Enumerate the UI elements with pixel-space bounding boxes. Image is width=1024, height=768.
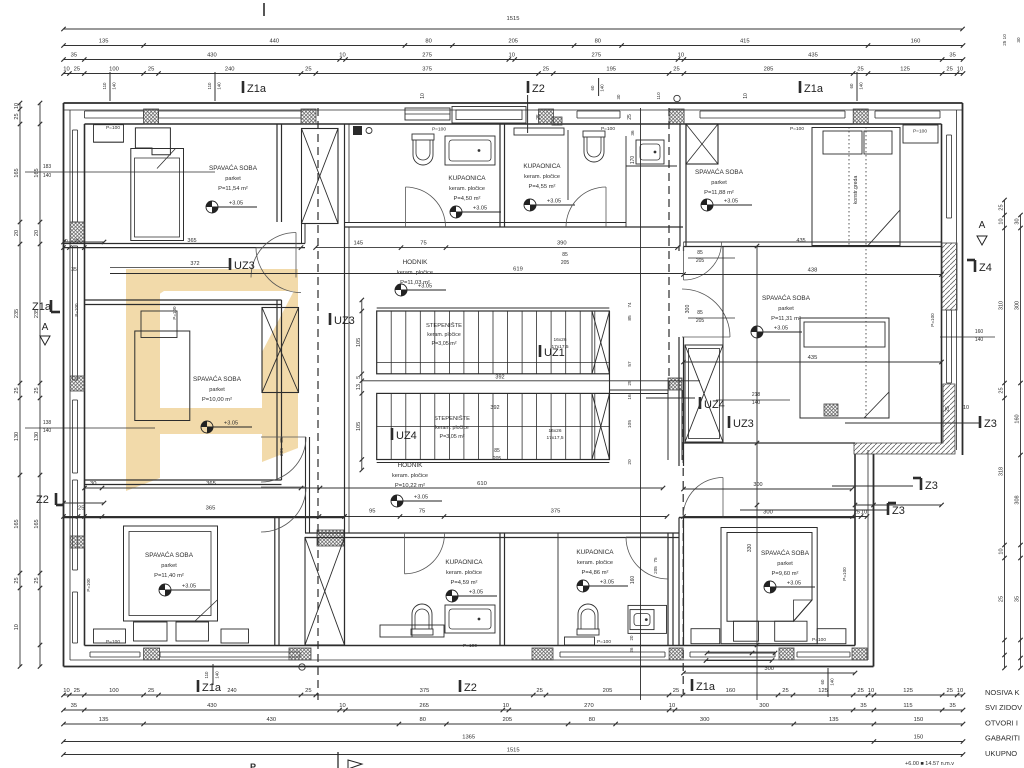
svg-text:25: 25	[34, 387, 40, 393]
svg-text:619: 619	[513, 267, 523, 273]
svg-text:P=4,55 m²: P=4,55 m²	[529, 184, 556, 190]
dashed section line right lower	[682, 390, 684, 694]
stair mid dimension line	[362, 380, 700, 382]
svg-text:430: 430	[266, 717, 276, 723]
svg-text:80: 80	[589, 717, 595, 723]
svg-text:300: 300	[700, 717, 710, 723]
svg-text:110: 110	[656, 92, 661, 100]
svg-text:P=100: P=100	[463, 643, 477, 649]
svg-text:25: 25	[74, 688, 80, 694]
svg-text:165: 165	[14, 168, 20, 177]
door bath3	[405, 534, 445, 574]
bath4 walls	[557, 533, 559, 645]
shaft2	[262, 308, 299, 393]
svg-text:keram. pločice: keram. pločice	[446, 570, 482, 576]
svg-text:25: 25	[148, 688, 154, 694]
dim row total 1515	[64, 28, 963, 30]
pier left 2	[70, 376, 85, 391]
svg-text:UZ4: UZ4	[396, 430, 417, 442]
svg-text:300: 300	[753, 482, 762, 488]
svg-text:25: 25	[857, 67, 863, 73]
svg-text:57: 57	[627, 361, 633, 367]
wall top-right bedroom bottom y246	[684, 246, 942, 248]
svg-text:435: 435	[808, 53, 818, 59]
svg-text:392: 392	[495, 375, 504, 381]
vertical dim x640	[640, 108, 642, 700]
bed bedroom3 right-mid	[800, 318, 889, 418]
svg-text:430: 430	[207, 703, 217, 709]
svg-text:75: 75	[653, 557, 658, 563]
svg-text:20: 20	[627, 459, 633, 465]
svg-text:SPAVAĆA SOBA: SPAVAĆA SOBA	[695, 167, 744, 176]
bath2 walls	[567, 130, 569, 200]
svg-text:10: 10	[669, 703, 675, 709]
svg-text:25: 25	[782, 688, 788, 694]
svg-text:P: P	[250, 762, 256, 768]
svg-text:25: 25	[74, 238, 80, 244]
bath2 shelf	[514, 128, 564, 135]
svg-text:10: 10	[339, 53, 345, 59]
bedroom1 bottom wall y247.6	[64, 243, 306, 245]
shaft3	[305, 538, 345, 646]
window bottom 100b	[797, 651, 850, 653]
svg-text:25: 25	[78, 506, 84, 512]
svg-text:125: 125	[900, 67, 910, 73]
top center axis tick	[263, 3, 265, 16]
bath4 small box	[565, 637, 595, 645]
section marker Z1a bottom-left	[197, 680, 200, 692]
tick left	[64, 241, 105, 243]
bedroom4 level marker +3.05	[201, 421, 213, 433]
svg-text:375: 375	[420, 688, 430, 694]
bottom dim row A	[64, 694, 964, 696]
svg-text:parket: parket	[225, 176, 241, 182]
window dim pair bottom x213	[212, 664, 214, 685]
svg-text:parket: parket	[711, 180, 727, 186]
svg-text:Z1a: Z1a	[804, 83, 824, 95]
svg-text:16: 16	[627, 394, 633, 400]
svg-text:205: 205	[653, 566, 658, 574]
svg-text:140: 140	[975, 337, 984, 343]
tick row	[64, 502, 105, 504]
svg-text:+3.05: +3.05	[229, 201, 243, 207]
dotted beam lines top-right	[848, 127, 850, 245]
svg-text:10: 10	[420, 93, 426, 99]
svg-text:10: 10	[63, 67, 69, 73]
svg-text:P=100: P=100	[106, 639, 120, 645]
svg-text:30: 30	[1016, 37, 1021, 43]
svg-text:+3.05: +3.05	[600, 580, 614, 586]
svg-text:keram. pločice: keram. pločice	[392, 473, 428, 479]
svg-text:Z1a: Z1a	[202, 682, 222, 694]
window	[946, 135, 948, 218]
svg-text:P=3,05 m²: P=3,05 m²	[439, 434, 464, 440]
bedroom5 right wall	[274, 518, 276, 646]
svg-text:140: 140	[752, 400, 761, 406]
svg-text:parket: parket	[778, 306, 794, 312]
svg-text:35: 35	[1015, 596, 1021, 602]
bath3 level marker +3.05	[446, 590, 458, 602]
svg-text:keram. pločice: keram. pločice	[427, 332, 461, 338]
svg-text:85: 85	[562, 252, 568, 258]
svg-text:keram. pločice: keram. pločice	[524, 174, 560, 180]
wall bottom rooms top y517.5	[64, 517, 345, 519]
svg-text:95: 95	[369, 509, 375, 515]
bottom center axis tick	[337, 752, 339, 768]
door bedroom2 upper	[684, 242, 722, 280]
svg-text:150: 150	[914, 717, 924, 723]
svg-text:25: 25	[673, 67, 679, 73]
dim row y488 right	[301, 487, 663, 489]
dim row 2	[64, 45, 964, 47]
svg-text:Z3: Z3	[925, 480, 938, 492]
svg-text:25: 25	[999, 387, 1005, 393]
section marker UZ3 b	[329, 313, 332, 325]
svg-text:310: 310	[999, 301, 1005, 310]
svg-text:300: 300	[1015, 301, 1021, 310]
svg-text:415: 415	[740, 39, 750, 45]
stair hall left wall	[344, 227, 346, 533]
svg-text:25: 25	[946, 688, 952, 694]
svg-text:25: 25	[305, 67, 311, 73]
svg-text:STEPENIŠTE: STEPENIŠTE	[434, 415, 470, 422]
bed bedroom6 bottom-right	[721, 528, 817, 644]
section marker Z2 left	[55, 493, 58, 505]
sink niche box bath4	[628, 605, 667, 633]
svg-text:300: 300	[759, 703, 769, 709]
svg-text:UKUPNO: UKUPNO	[985, 749, 1017, 758]
section marker UZ4 left	[391, 428, 394, 440]
Z3 leader line 2	[740, 509, 888, 511]
Z2 section trace line	[527, 95, 529, 133]
svg-text:parket: parket	[209, 387, 225, 393]
window bottom	[560, 651, 665, 653]
svg-text:P=100: P=100	[597, 639, 611, 645]
svg-text:365: 365	[187, 238, 196, 244]
bath1 level marker +3.05	[450, 206, 462, 218]
svg-text:P=11,31 m²: P=11,31 m²	[771, 316, 801, 322]
svg-text:365: 365	[206, 506, 216, 512]
svg-text:NOSIVA K: NOSIVA K	[985, 688, 1019, 697]
svg-text:130: 130	[34, 432, 40, 441]
svg-text:240: 240	[227, 688, 236, 694]
svg-text:UZ4: UZ4	[704, 399, 725, 411]
svg-text:10: 10	[339, 703, 345, 709]
svg-text:35: 35	[71, 267, 77, 273]
window top bath1 large	[452, 107, 526, 124]
svg-text:318: 318	[999, 467, 1005, 476]
svg-text:25: 25	[999, 596, 1005, 602]
svg-text:UZ3: UZ3	[733, 418, 754, 430]
svg-text:170: 170	[630, 156, 636, 165]
door bath4	[626, 537, 668, 579]
svg-text:205: 205	[696, 318, 705, 324]
bottom dim row B	[64, 709, 964, 711]
bottom dim row E	[64, 754, 964, 756]
svg-text:KUPAONICA: KUPAONICA	[448, 175, 486, 182]
svg-text:165: 165	[34, 519, 40, 528]
svg-text:+3.05: +3.05	[547, 199, 561, 205]
svg-text:165: 165	[34, 168, 40, 177]
svg-text:270: 270	[584, 703, 594, 709]
svg-text:+3.05: +3.05	[414, 495, 428, 501]
window top bath1 small	[405, 108, 450, 120]
svg-text:36: 36	[630, 130, 635, 136]
sink bath3	[445, 605, 495, 633]
door bath1	[406, 187, 446, 227]
svg-text:275: 275	[422, 53, 432, 59]
svg-text:UZ3: UZ3	[234, 260, 255, 272]
pier bottom 4	[669, 648, 683, 660]
door bath2	[566, 187, 606, 227]
outer wall top	[64, 102, 963, 104]
svg-text:25: 25	[536, 688, 542, 694]
svg-text:parket: parket	[161, 563, 177, 569]
corridor wall pieces near UZ4	[610, 389, 669, 391]
svg-text:80: 80	[419, 717, 425, 723]
svg-text:P=11,88 m²: P=11,88 m²	[704, 190, 734, 196]
window left 235	[72, 246, 74, 380]
svg-text:285: 285	[764, 67, 774, 73]
svg-text:10: 10	[957, 688, 963, 694]
svg-text:P=100: P=100	[86, 578, 91, 592]
bath3 walls	[344, 533, 346, 645]
svg-text:10: 10	[14, 624, 20, 630]
wardrobe bedroom2 (X-box)	[686, 124, 718, 164]
svg-text:140: 140	[830, 678, 835, 686]
svg-text:300: 300	[764, 666, 774, 672]
door bedroom6	[683, 478, 723, 518]
svg-text:25: 25	[14, 387, 20, 393]
hatch bottom small	[824, 404, 838, 416]
dim row 3	[64, 59, 964, 61]
svg-text:Z1a: Z1a	[247, 83, 267, 95]
section marker Z3 mid	[920, 478, 923, 490]
pier bottom 5	[779, 648, 794, 660]
svg-text:Z1a: Z1a	[32, 301, 52, 313]
mini corridor wall x305	[305, 437, 307, 533]
vertical dim x757	[756, 246, 758, 700]
svg-text:75: 75	[419, 509, 425, 515]
Z3 leader line 3	[845, 422, 980, 424]
section cut hatch right L-shape Z3	[854, 384, 955, 454]
svg-text:10: 10	[503, 703, 509, 709]
window top right 125	[875, 110, 940, 112]
svg-text:P=10,00 m²: P=10,00 m²	[202, 397, 232, 403]
pier bottom 2	[289, 648, 311, 660]
window left 165b	[72, 480, 74, 570]
svg-text:140: 140	[43, 173, 52, 179]
svg-text:165: 165	[14, 519, 20, 528]
svg-text:160: 160	[911, 39, 921, 45]
window dim pair x598	[598, 78, 600, 96]
stair walk line lower	[377, 426, 610, 428]
svg-text:keram. pločice: keram. pločice	[435, 425, 469, 431]
svg-text:SPAVAĆA SOBA: SPAVAĆA SOBA	[761, 548, 810, 557]
svg-text:1515: 1515	[507, 748, 520, 754]
svg-text:85: 85	[494, 448, 500, 454]
dashed section line left	[317, 108, 319, 700]
svg-text:25: 25	[148, 67, 154, 73]
svg-text:KUPAONICA: KUPAONICA	[445, 559, 483, 566]
pier center corridor	[668, 378, 682, 390]
svg-text:Z2: Z2	[464, 682, 477, 694]
svg-text:25: 25	[536, 114, 542, 120]
svg-text:25: 25	[34, 577, 40, 583]
interior dim row y247	[316, 247, 678, 249]
svg-text:P=100: P=100	[432, 127, 446, 133]
door bedroom5	[261, 487, 306, 532]
svg-text:183: 183	[43, 164, 52, 170]
svg-text:10: 10	[999, 218, 1005, 224]
window right 160	[946, 310, 948, 383]
bedroom1 level marker +3.05	[206, 201, 218, 213]
svg-text:keram. pločice: keram. pločice	[577, 560, 613, 566]
svg-text:keram. pločice: keram. pločice	[397, 270, 433, 276]
svg-text:308: 308	[1015, 495, 1021, 504]
svg-text:218: 218	[752, 392, 761, 398]
svg-text:10: 10	[743, 93, 749, 99]
svg-text:30: 30	[90, 481, 96, 487]
section marker Z3 right top	[979, 416, 982, 428]
toilet bath3	[411, 604, 433, 635]
svg-text:160: 160	[630, 576, 636, 585]
svg-text:85: 85	[697, 310, 703, 316]
outer wall right lower (inset)	[873, 454, 875, 667]
landing right wall	[609, 311, 611, 460]
section marker UZ1	[539, 345, 542, 357]
outer wall bottom	[64, 666, 874, 668]
section marker Z2 top	[527, 81, 530, 93]
window top 240	[159, 110, 302, 112]
bed bedroom2 top-right	[812, 128, 900, 246]
svg-text:SPAVAĆA SOBA: SPAVAĆA SOBA	[145, 550, 194, 559]
bed bedroom4 left-mid	[135, 331, 190, 421]
svg-text:150: 150	[914, 735, 924, 741]
svg-text:25: 25	[14, 113, 20, 119]
pier top 1	[144, 109, 159, 124]
svg-text:138: 138	[43, 420, 52, 426]
hodnik lower level marker +3.05	[391, 495, 403, 507]
UZ4 leader	[646, 397, 695, 399]
dim row y488 left	[85, 487, 321, 489]
window dim pair x215	[214, 72, 216, 101]
svg-text:10: 10	[868, 688, 874, 694]
corridor right dim 300 row	[684, 488, 853, 490]
svg-text:125: 125	[903, 688, 913, 694]
svg-text:25: 25	[999, 204, 1005, 210]
section marker Z2 bottom	[459, 680, 462, 692]
svg-text:10: 10	[508, 53, 514, 59]
svg-text:25: 25	[857, 688, 863, 694]
svg-text:KUPAONICA: KUPAONICA	[576, 549, 614, 556]
svg-text:10: 10	[63, 688, 69, 694]
svg-text:85: 85	[697, 250, 703, 256]
svg-text:UZ3: UZ3	[334, 315, 355, 327]
svg-text:STEPENIŠTE: STEPENIŠTE	[426, 322, 462, 329]
svg-text:UZ1: UZ1	[544, 347, 565, 359]
lower corridor walls y533	[305, 532, 679, 534]
window bottom 100	[90, 651, 140, 653]
svg-text:115: 115	[903, 703, 912, 709]
window left 165	[72, 130, 74, 222]
svg-text:A: A	[42, 322, 49, 333]
svg-text:440: 440	[269, 39, 279, 45]
toilet bath4	[577, 604, 599, 635]
svg-text:+3.05: +3.05	[724, 199, 738, 205]
svg-text:140: 140	[217, 82, 222, 90]
svg-text:+6.00 ■ 14.57 n.m.v: +6.00 ■ 14.57 n.m.v	[905, 761, 954, 767]
svg-text:10: 10	[678, 53, 684, 59]
svg-text:110: 110	[102, 82, 107, 90]
dim row y516 left	[64, 516, 345, 518]
svg-text:265: 265	[419, 703, 429, 709]
window left low	[72, 592, 74, 643]
section cut hatch right wall Z4	[942, 243, 957, 310]
shaft X-box right of stairs	[685, 345, 723, 442]
dim 435 a	[684, 361, 942, 363]
window top right 285	[700, 110, 845, 112]
svg-text:438: 438	[808, 268, 818, 274]
svg-text:205: 205	[508, 39, 518, 45]
svg-text:25: 25	[543, 67, 549, 73]
svg-text:10: 10	[14, 103, 20, 109]
svg-text:160: 160	[1015, 414, 1021, 423]
sink bath2	[636, 140, 664, 164]
stair walk line upper	[377, 362, 610, 364]
pier bottom 3	[532, 648, 553, 660]
svg-text:+3.05: +3.05	[787, 581, 801, 587]
svg-text:145: 145	[353, 241, 363, 247]
svg-text:300: 300	[685, 305, 691, 314]
svg-text:17x17,5: 17x17,5	[546, 435, 563, 441]
hodnik upper level marker +3.05	[395, 284, 407, 296]
right dim col outer	[1020, 215, 1022, 668]
svg-text:parket: parket	[777, 561, 793, 567]
svg-text:P=9,60 m²: P=9,60 m²	[772, 571, 799, 577]
svg-text:205: 205	[502, 717, 512, 723]
shaft1 to wall connector	[301, 224, 303, 244]
svg-text:105: 105	[627, 420, 633, 428]
svg-text:25: 25	[74, 67, 80, 73]
svg-text:P=11,40 m²: P=11,40 m²	[154, 573, 184, 579]
svg-text:240: 240	[225, 67, 235, 73]
svg-text:35: 35	[860, 703, 866, 709]
svg-text:60: 60	[849, 83, 854, 88]
svg-text:430: 430	[207, 53, 217, 59]
section marker Z1a bottom-right	[691, 679, 694, 691]
svg-text:20: 20	[34, 230, 40, 236]
svg-text:GABARITI: GABARITI	[985, 734, 1020, 743]
nightstands bedroom6	[734, 621, 759, 641]
bedroom2 left wall	[679, 124, 681, 247]
svg-text:OTVORI I: OTVORI I	[985, 718, 1018, 727]
svg-text:375: 375	[551, 509, 561, 515]
svg-text:60: 60	[820, 679, 825, 684]
door bedroom4	[251, 233, 296, 278]
right inset dim	[855, 504, 942, 506]
bedroom3 level marker +3.05	[751, 326, 763, 338]
svg-text:35: 35	[71, 703, 77, 709]
circle marker top	[674, 95, 680, 101]
svg-text:105: 105	[356, 338, 362, 347]
pier small bath2	[552, 117, 562, 125]
svg-text:20: 20	[14, 230, 20, 236]
svg-text:26: 26	[629, 647, 634, 652]
svg-text:275: 275	[591, 53, 601, 59]
svg-text:16x26: 16x26	[548, 428, 561, 434]
window	[577, 110, 620, 112]
